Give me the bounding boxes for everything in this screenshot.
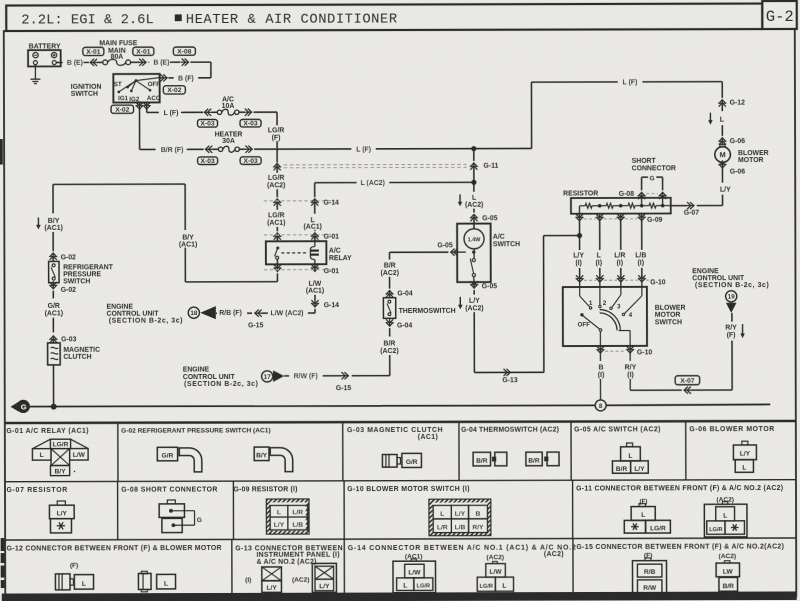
connector G-11 chevron on LG/R column <box>273 163 281 173</box>
wire L/Y(AC2) down/right/up to resistor <box>474 236 580 373</box>
dashed connector row G-01 below relay <box>264 269 335 271</box>
connector X-01 (left) <box>83 47 104 56</box>
G-10 chevrons below switch <box>596 345 652 356</box>
junction on L(F) at A/C switch column <box>471 146 476 151</box>
label G-01 above relay <box>324 234 340 241</box>
junction clutch/ground bus <box>51 404 57 410</box>
label G-08 <box>619 191 635 198</box>
arrow + label L/Y (AC2) <box>458 297 484 312</box>
label L/W (AC1) <box>306 281 324 295</box>
fuse A/C 10A <box>217 96 239 115</box>
label LG/R (AC1) <box>267 212 285 226</box>
scan mark left margin <box>0 139 3 165</box>
G-09 chevrons below resistor <box>575 213 662 224</box>
G-04 chevron above thermoswitch <box>385 277 413 298</box>
wire L/W(AC2) to ECU pin 18 <box>214 308 315 317</box>
wire B(I) to node 8 <box>600 379 602 400</box>
label G-01 below relay <box>324 268 340 275</box>
ignition switch <box>71 74 161 103</box>
G-05 chevron above A/C switch <box>470 209 498 224</box>
ECU pin 17 node <box>262 370 285 382</box>
wire L(F) heater fuse to right <box>240 144 532 154</box>
legend G-12 connector front/blower motor <box>7 545 222 592</box>
wire L(F) up and over to blower motor <box>531 77 722 148</box>
arrow + label L (AC2) <box>458 182 484 209</box>
wire B/Y relay to pressure switch top run <box>53 184 277 282</box>
left margin scan text bar <box>1 538 5 588</box>
wire B/R(AC2) A/C switch to thermoswitch <box>389 252 448 259</box>
connector X-07 <box>675 376 700 385</box>
wire B(E) main fuse to X-08 <box>131 58 181 67</box>
wire L/W + G-14 chevron <box>311 295 339 313</box>
G-06 chevron below blower motor <box>718 160 745 182</box>
legend G-06 blower motor <box>689 426 775 473</box>
label B/R (AC2) lower <box>380 341 398 355</box>
wire L(F) ignition to A/C fuse <box>147 108 218 117</box>
arrow + label B/Y (AC1) left <box>36 217 63 232</box>
G-04 chevron below thermoswitch <box>385 318 412 336</box>
junction on L/Y(I) column <box>577 233 582 238</box>
G-10 chevron (L/B) <box>638 274 646 287</box>
label G/R (AC1) <box>45 303 63 317</box>
ECU pin 18 node <box>188 306 216 319</box>
legend G-14 connector AC1/AC2 <box>348 544 577 592</box>
legend G-02 refrigerant pressure switch (AC1) <box>121 427 293 472</box>
label LG/R (F) <box>268 127 285 141</box>
label B/R (AC2) upper <box>381 262 399 276</box>
connector X-02 (below ignition switch) <box>111 105 134 114</box>
label RESISTOR <box>563 191 598 198</box>
wire L/Y(I) column <box>578 221 580 277</box>
wire LG/R(F) fuse to junction column <box>239 109 277 126</box>
ground bus wire <box>29 404 770 406</box>
wire L(AC2) horizontal to relay <box>315 178 474 197</box>
label L/B (I) <box>635 252 646 266</box>
magnetic clutch <box>48 343 101 365</box>
G-01 chevrons below relay <box>273 264 319 272</box>
G-02 chevron below pressure switch <box>49 281 76 298</box>
junction L(AC2) <box>471 180 476 185</box>
fuse HEATER 30A <box>215 131 243 152</box>
legend G-03 magnetic clutch (AC1) <box>347 427 443 468</box>
label L (I) <box>596 252 603 266</box>
legend G-07 resistor <box>6 487 74 533</box>
G-05 chevron below A/C switch <box>470 280 497 294</box>
dashed connector row G-11 <box>284 164 467 167</box>
connector X-08 <box>173 47 195 56</box>
G-05 label + chevron left of A/C switch <box>437 243 458 256</box>
A/C switch SW1 <box>457 223 520 282</box>
page title bar <box>6 4 762 31</box>
wire L(AC1) into relay + G-01 chevron <box>311 230 319 241</box>
label L/Y (I) <box>573 253 584 267</box>
engine control unit text (17) <box>183 367 259 388</box>
ECU pin 19 node <box>726 291 737 313</box>
arrow + label L (blower feed) <box>708 113 724 125</box>
G-10 chevron (L) <box>596 274 604 287</box>
resistor R (blower resistor block) <box>571 198 671 214</box>
battery <box>28 43 61 66</box>
dashed connector row G-14 <box>264 200 335 202</box>
G-10 chevron (L/R) <box>617 274 625 287</box>
ignition output connector chevrons <box>135 101 151 109</box>
wire B/R(F) ignition to heater fuse <box>139 109 218 154</box>
wire into relay pin + G-01 chevron <box>273 227 281 241</box>
legend G-08 short connector <box>121 486 218 532</box>
label B/Y (AC1) right <box>179 234 197 248</box>
blower motor M1 <box>715 144 769 164</box>
label MAIN FUSE <box>99 40 137 47</box>
wire L/Y blower to resistor <box>671 195 723 210</box>
label B (I) <box>598 353 605 379</box>
short connector (G) <box>637 175 666 206</box>
label R/Y (F) + arrow <box>725 324 745 339</box>
label L (AC1) <box>303 217 321 231</box>
page number box G-2 <box>762 1 797 29</box>
wire B(E) battery to main fuse <box>56 58 89 67</box>
label G-14 (relay row) <box>324 200 340 207</box>
engine control unit text (18) <box>107 303 184 324</box>
wire R/Y to ECU19 drop <box>630 379 732 394</box>
legend G-05 A/C switch (AC2) <box>574 426 661 473</box>
connector X-01 (right) <box>133 47 154 56</box>
connector X-03 labels (A/C fuse) <box>198 119 262 127</box>
label G-07 <box>684 210 700 217</box>
legend G-13 connector instrument panel/AC2 <box>235 545 343 592</box>
G-11 chevron on L column <box>470 149 499 183</box>
legend G-11 connector front/AC2 <box>576 485 783 538</box>
engine control unit text (19) <box>692 268 769 290</box>
node 8 on ground bus <box>595 400 606 411</box>
refrigerant pressure switch <box>49 261 114 285</box>
wire B/R down to R/W run <box>352 355 390 376</box>
G-02 chevron above pressure switch <box>49 232 76 262</box>
label G-15 (ECU18 row) <box>248 323 264 330</box>
label G-15 (ECU17 row) <box>336 385 352 392</box>
wire L/B(I) column <box>641 221 643 277</box>
label L/R (I) <box>614 252 625 266</box>
legend G-01 A/C relay (AC1) <box>6 428 89 476</box>
wire LG/R(AC1) into relay <box>273 189 281 210</box>
wire B(F) to ignition switch <box>159 58 211 82</box>
G-12 chevron on blower feed <box>718 82 745 112</box>
wire L/R(I) column <box>620 221 622 277</box>
relay U G-01 A/C relay <box>266 241 352 264</box>
legend G-15 connector front/AC2 <box>576 544 784 595</box>
legend G-09 resistor (I) <box>233 486 309 534</box>
label L/Y (blower) <box>720 187 731 194</box>
label G-10 above switch <box>650 279 666 286</box>
thermoswitch <box>383 298 455 319</box>
fuse MAIN 80A <box>103 48 131 66</box>
wire clutch to ground bus <box>52 365 54 407</box>
dashed connector row G-01 above relay <box>264 234 335 236</box>
legend grid frame <box>5 421 796 594</box>
wire LG/R vertical column <box>276 141 278 162</box>
bottom scan bar <box>2 591 797 601</box>
G-14 chevron on L column <box>311 198 319 213</box>
blower motor switch SW2 <box>563 287 686 346</box>
label R/Y (I) <box>625 353 637 379</box>
ground symbol G <box>11 400 30 412</box>
connector X-02 (right of ignition switch) <box>163 86 185 95</box>
connector chevrons into main fuse <box>90 59 103 66</box>
wire R/Y(F) from ECU19 <box>731 313 733 390</box>
connector X-03 labels (heater fuse) <box>198 157 262 165</box>
legend G-10 blower motor switch (I) <box>347 486 491 536</box>
dashed row G-10 above switch <box>584 279 656 281</box>
G-10 chevron (L/Y) <box>575 275 583 288</box>
wire L(I) column <box>599 221 601 277</box>
label LG/R (AC2) <box>267 175 285 189</box>
legend G-04 thermoswitch (AC2) <box>461 426 559 465</box>
wire R/W(F) to ECU pin 17 <box>284 371 349 380</box>
G-06 chevron above blower motor <box>718 125 745 145</box>
wire to magnetic clutch + G-03 chevron <box>49 318 76 344</box>
label SHORT CONNECTOR <box>632 158 676 173</box>
battery ground <box>30 65 40 84</box>
G-13 chevron <box>502 369 518 385</box>
